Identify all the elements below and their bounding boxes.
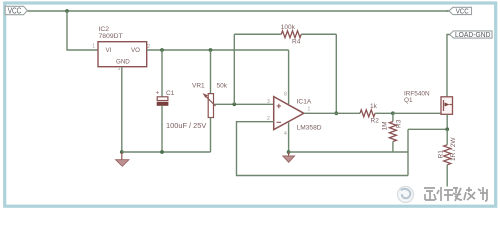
svg-text:2: 2 [147, 44, 150, 50]
svg-text:100k: 100k [281, 24, 296, 31]
svg-text:1R / 2W: 1R / 2W [450, 137, 457, 161]
svg-text:100uF / 25V: 100uF / 25V [166, 121, 206, 130]
wire VR1 top lead [210, 50, 212, 94]
wire R4 right vertical [335, 34, 337, 113]
wire R1 bottom [446, 165, 448, 187]
wire left ground rail [122, 151, 211, 153]
watermark text [425, 188, 488, 202]
wire opamp output [304, 112, 360, 114]
resistor R4 100k [234, 24, 336, 46]
svg-text:3: 3 [267, 99, 270, 105]
junction source node [445, 127, 449, 131]
wire gate [393, 112, 441, 114]
svg-text:C1: C1 [166, 90, 175, 97]
wire opamp pin4 drop [288, 123, 290, 153]
svg-text:GND: GND [116, 59, 130, 66]
resistor R3 1M [382, 113, 403, 152]
svg-text:2: 2 [267, 116, 270, 122]
op-amp IC1A LM358D [267, 92, 322, 138]
potentiometer VR1 50k [192, 83, 228, 118]
wire VO rail [147, 49, 289, 51]
svg-text:VI: VI [106, 47, 112, 54]
junction at top rail to IC2 [65, 9, 69, 13]
svg-text:Q1: Q1 [404, 97, 413, 104]
svg-text:7809DT: 7809DT [99, 33, 123, 40]
wire source [446, 114, 448, 129]
wire right ground rail [289, 151, 408, 153]
svg-text:+: + [156, 89, 160, 96]
svg-text:50k: 50k [217, 83, 228, 90]
resistor R2 1k [360, 103, 393, 125]
net flag LOAD-GND [450, 31, 492, 39]
watermark logo [398, 187, 414, 203]
wire C1 bottom lead [161, 105, 163, 152]
junction wiper / R4 [232, 102, 236, 106]
wire R4 left vertical [233, 34, 235, 104]
svg-text:R4: R4 [292, 39, 301, 46]
wire C1 top lead [161, 50, 163, 97]
junction gnd rail / C1 [160, 150, 164, 154]
svg-text:R2: R2 [371, 118, 380, 125]
transistor Q1 IRF540N [404, 90, 453, 114]
svg-text:IC1A: IC1A [297, 99, 312, 106]
svg-text:3: 3 [118, 66, 121, 71]
wire VCC drop to IC2 VI [67, 11, 98, 50]
junction output / R4 [334, 111, 338, 115]
wire drain from LOAD-GND [447, 35, 450, 97]
svg-text:LOAD-GND: LOAD-GND [455, 32, 491, 39]
ground symbol left [116, 152, 129, 166]
svg-text:VCC: VCC [456, 7, 469, 16]
capacitor C1 100uF/25V [156, 89, 207, 130]
svg-text:1: 1 [308, 107, 311, 113]
svg-text:VR1: VR1 [192, 83, 205, 90]
wire opamp pin8 drop [288, 50, 290, 104]
svg-text:1k: 1k [370, 103, 378, 110]
junction VO rail / C1 [160, 48, 164, 52]
svg-text:4: 4 [284, 131, 287, 137]
wire VR1 bottom lead [210, 118, 212, 153]
junction VO rail / VR1 [209, 48, 213, 52]
svg-text:8: 8 [284, 92, 287, 98]
wire VR1 wiper to +input [215, 103, 274, 105]
wire source sense horizontal [408, 128, 447, 130]
svg-text:LM358D: LM358D [297, 124, 322, 131]
resistor R1 1R/2W [438, 129, 458, 165]
ground symbol opamp [283, 152, 295, 162]
svg-text:1M: 1M [382, 121, 389, 130]
wire top VCC rail [27, 10, 449, 12]
svg-text:R3: R3 [396, 119, 403, 128]
svg-text:R1: R1 [438, 150, 445, 159]
wire right vertical source sense [407, 129, 409, 175]
svg-text:VCC: VCC [8, 7, 22, 16]
voltage regulator IC2 7809DT [92, 26, 150, 71]
wire -input net [237, 122, 409, 176]
net flag VCC left [5, 6, 27, 15]
junction opamp ground [287, 150, 291, 154]
svg-text:1: 1 [92, 44, 95, 50]
junction gnd rail left [120, 150, 124, 154]
junction gate node [391, 111, 395, 115]
svg-text:VO: VO [131, 47, 140, 54]
wire IC2 GND lead [121, 67, 123, 152]
net flag VCC right [446, 7, 472, 16]
